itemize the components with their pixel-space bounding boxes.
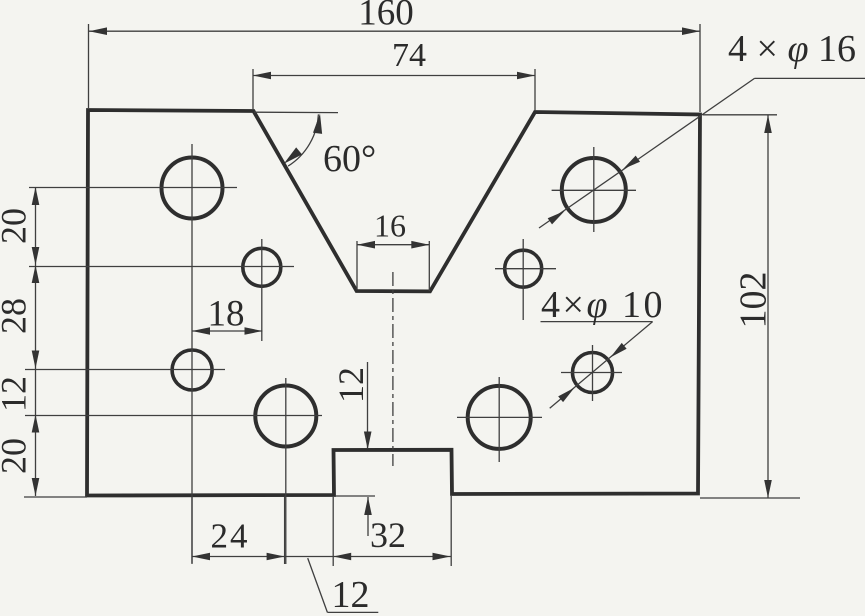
arrow notch12 up at bottom face bbox=[364, 497, 372, 515]
centerline column through TL and LL holes down to bottom dims bbox=[191, 144, 193, 563]
arrow dim102 bottom bbox=[764, 480, 772, 498]
svg-text:16: 16 bbox=[374, 208, 406, 244]
dim 102 dimension line bbox=[767, 115, 769, 498]
centerline row through UR small hole bbox=[495, 268, 556, 270]
dim 16 dimension line bbox=[357, 244, 429, 246]
svg-text:24: 24 bbox=[211, 517, 250, 556]
svg-text:12: 12 bbox=[331, 367, 371, 403]
svg-text:18: 18 bbox=[208, 294, 245, 335]
centerline row through BL hole / extension to left dim stack bbox=[25, 415, 322, 417]
dim 16 right extension line bbox=[428, 241, 430, 291]
arrow left stack down at y368 bbox=[32, 351, 40, 369]
arrow left stack up at y414 bbox=[32, 415, 40, 433]
svg-text:102: 102 bbox=[733, 272, 775, 329]
left stack bottom extension line bbox=[24, 496, 87, 498]
centerline column through BL hole down to bottom dims bbox=[285, 378, 287, 564]
arrow dim74 right bbox=[517, 72, 535, 80]
arrow angle60 bottom bbox=[281, 147, 302, 167]
arrow left stack up at y187 bbox=[32, 187, 40, 205]
hole circle phi16 top-left bbox=[162, 158, 223, 219]
dim 160 dimension line bbox=[89, 30, 700, 32]
arrow dim74 left bbox=[253, 72, 271, 80]
arrow dim32 left bbox=[333, 553, 351, 561]
svg-text:32: 32 bbox=[370, 515, 406, 555]
centerline column through BR hole bbox=[498, 377, 500, 462]
left dim stack dimension line bbox=[35, 187, 37, 496]
arrow phi10 leader lower bbox=[558, 385, 577, 402]
dim 12 notch-depth dimension line below bottom face bbox=[367, 497, 369, 536]
dim 160 right extension line bbox=[699, 24, 701, 112]
arrow dim24 right bbox=[267, 553, 285, 561]
arrow dim24 left bbox=[192, 553, 210, 561]
vertical chain centerline of V-groove bbox=[392, 272, 394, 466]
centerline row through UL small hole / extension to left dim stack bbox=[29, 266, 294, 268]
arrow dim102 top bbox=[764, 115, 772, 133]
dim 74 left extension line bbox=[252, 69, 254, 110]
arrow dim18 right bbox=[245, 327, 263, 335]
arrow dim32 right bbox=[433, 553, 451, 561]
dim 32 extension line at x=451 bbox=[450, 496, 452, 566]
leader underline of bottom 12 label bbox=[327, 611, 378, 613]
arrow dim16 right bbox=[411, 241, 429, 249]
dim 24/32 extension line at x=285 bbox=[284, 497, 286, 564]
leader diagonal of 4xphi16 through TR hole bbox=[539, 78, 755, 228]
arrow dim160 left bbox=[89, 27, 107, 35]
arrow left stack up at y265 bbox=[32, 265, 40, 283]
svg-text:4 × φ 16: 4 × φ 16 bbox=[728, 28, 856, 70]
centerline column through TR hole bbox=[593, 147, 595, 232]
svg-text:160: 160 bbox=[358, 0, 414, 34]
arrow left stack down at y265 bbox=[32, 247, 40, 265]
centerline column through UR small hole bbox=[522, 239, 524, 320]
arrow dim16 left bbox=[357, 241, 375, 249]
angle dim 60 arc bbox=[288, 114, 318, 166]
svg-text:4×φ 10: 4×φ 10 bbox=[541, 284, 665, 326]
leader underline of 4xphi16 label bbox=[755, 77, 865, 79]
centerline column through LR small hole bbox=[592, 345, 594, 401]
arrow angle60 top bbox=[313, 113, 325, 134]
centerline row through TR hole bbox=[552, 189, 636, 191]
arrow phi16 leader upper bbox=[621, 156, 640, 173]
leader diagonal of 4xphi10 through LR hole bbox=[550, 322, 653, 409]
svg-text:12: 12 bbox=[0, 376, 34, 412]
svg-text:28: 28 bbox=[0, 298, 34, 334]
dim 12 notch-depth dimension line above notch bbox=[367, 362, 369, 448]
hole circle phi16 bottom-left bbox=[255, 386, 316, 447]
svg-text:60°: 60° bbox=[323, 138, 376, 180]
part outline (V-block) bbox=[87, 110, 700, 496]
centerline row through TL hole / extension to left dim stack bbox=[29, 187, 237, 189]
svg-text:12: 12 bbox=[332, 574, 370, 616]
arrow phi10 leader upper bbox=[608, 343, 627, 360]
arrow notch12 down at notch top bbox=[364, 432, 372, 450]
centerline row through LL small hole / extension to left dim stack bbox=[25, 369, 225, 371]
arrow dim160 right bbox=[682, 27, 700, 35]
leader slant of bottom 12 label bbox=[308, 558, 328, 612]
dim 32 extension line at x=333 bbox=[332, 497, 334, 566]
hole circle phi16 top-right bbox=[562, 158, 626, 222]
dim 18 dimension line bbox=[192, 330, 263, 332]
dim 24/32 extension line at x=192 bbox=[191, 497, 193, 564]
arrow phi16 leader lower bbox=[548, 208, 567, 225]
arrow left stack down at y496 bbox=[32, 478, 40, 496]
dim 74 right extension line bbox=[534, 69, 536, 111]
hole circle phi10 upper-right bbox=[505, 250, 542, 287]
hole circle phi10 lower-right bbox=[573, 353, 613, 393]
dim 160 left extension line bbox=[88, 24, 90, 108]
dim 16 left extension line bbox=[356, 241, 358, 290]
dim 24/32 dimension line bbox=[192, 556, 451, 558]
centerline row through LR small hole bbox=[561, 372, 622, 374]
dim 74 dimension line bbox=[253, 75, 535, 77]
svg-text:74: 74 bbox=[392, 37, 426, 74]
dim 102 top extension line bbox=[703, 114, 777, 116]
hole circle phi10 upper-left bbox=[243, 248, 281, 286]
svg-text:20: 20 bbox=[0, 208, 34, 244]
angle dim top-edge extension line bbox=[254, 111, 338, 113]
arrow dim18 left bbox=[192, 327, 210, 335]
svg-text:20: 20 bbox=[0, 438, 34, 474]
leader underline of 4xphi10 label bbox=[541, 321, 653, 323]
notch bottom reference extension line bbox=[335, 495, 375, 497]
centerline column through UL small hole bbox=[261, 239, 263, 341]
dim 102 bottom extension line bbox=[700, 497, 800, 499]
centerline row through BR hole bbox=[457, 416, 542, 418]
hole circle phi10 lower-left bbox=[172, 350, 212, 390]
hole circle phi16 bottom-right bbox=[468, 386, 531, 449]
